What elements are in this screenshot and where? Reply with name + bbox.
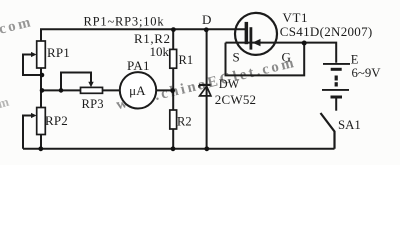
svg-text:CS41D(2N2007): CS41D(2N2007) (280, 24, 373, 39)
svg-text:10k: 10k (150, 44, 170, 59)
svg-text:PA1: PA1 (127, 58, 150, 73)
svg-text:2CW52: 2CW52 (215, 92, 256, 107)
svg-text:R1: R1 (179, 53, 194, 67)
svg-text:RP3: RP3 (82, 97, 104, 111)
svg-text:VT1: VT1 (283, 10, 309, 25)
svg-text:G: G (282, 50, 291, 65)
svg-text:www.chinaEClet.com: www.chinaEClet.com (0, 14, 35, 74)
svg-text:RP2: RP2 (45, 113, 68, 128)
svg-text:R2: R2 (177, 114, 192, 128)
svg-text:DW: DW (219, 77, 240, 91)
svg-text:μA: μA (129, 83, 146, 98)
svg-text:6~9V: 6~9V (352, 66, 382, 80)
svg-text:E: E (351, 53, 359, 67)
svg-text:RP1~RP3;10k: RP1~RP3;10k (84, 15, 165, 29)
svg-text:om: om (0, 94, 11, 113)
svg-text:D: D (202, 12, 211, 27)
svg-text:RP1: RP1 (47, 45, 70, 60)
svg-text:SA1: SA1 (338, 118, 361, 132)
svg-text:S: S (233, 50, 240, 65)
